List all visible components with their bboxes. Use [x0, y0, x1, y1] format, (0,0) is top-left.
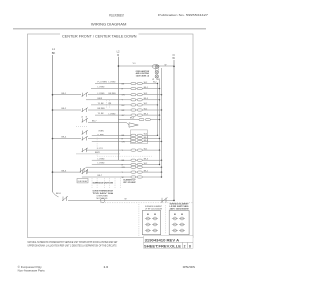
svg-text:L1 TO: L1 TO [98, 148, 104, 150]
wire pin link B4 [136, 149, 137, 151]
node N label [172, 53, 175, 60]
wire dashed between connector boxes [165, 205, 167, 234]
junction bundle B2 [159, 138, 160, 139]
svg-text:N: N [173, 53, 175, 57]
wire row C1 [92, 159, 131, 161]
connector pin pair A6 [131, 109, 142, 111]
svg-text:WIRING DIAGRAM: WIRING DIAGRAM [91, 22, 127, 26]
connector pin pair B3 [131, 140, 142, 142]
title block box [144, 236, 194, 248]
junction bundle C5 [161, 176, 162, 177]
wire L1 tap row C4 [53, 171, 82, 173]
wire row B4 [86, 149, 131, 151]
svg-text:TOD 240V 16A: TOD 240V 16A [93, 192, 114, 195]
junction bundle A2 [159, 88, 160, 89]
svg-text:BK-1: BK-1 [144, 170, 148, 172]
switch contact S8 [82, 130, 89, 134]
wire L1 tap row A3 [53, 94, 82, 96]
schematic title: CENTER FRONT / CENTER TABLE DOWN [60, 32, 139, 38]
svg-text:R: R [117, 53, 119, 57]
wire dashed vertical drop mid [96, 138, 98, 157]
oven lamp E3 bulb [155, 75, 158, 78]
connector pin pair B4 [131, 149, 142, 151]
wire dashed drops to element block [92, 178, 120, 188]
svg-text:OVEN: OVEN [98, 130, 104, 132]
wire bundle vertical 1 [157, 84, 159, 136]
svg-text:8: 8 [189, 244, 191, 248]
junction bundle C4 [161, 171, 162, 172]
junction bundle C3 [161, 167, 162, 168]
connector pin pair A7 [131, 114, 142, 116]
wire pin to bundle A7 [142, 114, 159, 116]
wire row A6 [88, 109, 131, 111]
wire pin to bundle C2 [142, 164, 159, 166]
connector pin pair C4 [131, 171, 142, 173]
wire L2 bus [117, 57, 119, 160]
svg-text:SHEET:FREV.OLLE: SHEET:FREV.OLLE [144, 244, 182, 248]
svg-text:PGLEF398ES7: PGLEF398ES7 [109, 13, 124, 17]
connector pin pair B2 [131, 137, 142, 139]
wire row C3 [86, 166, 131, 168]
schematic border box [28, 34, 194, 238]
svg-text:L1 RED: L1 RED [98, 163, 106, 165]
svg-text:W-2: W-2 [144, 82, 147, 84]
contact labels A B [82, 116, 88, 119]
wire pin link B3 [136, 141, 137, 143]
wire pin link A6 [136, 109, 137, 111]
node L1 label [52, 47, 56, 55]
svg-text:L1 RED: L1 RED [98, 93, 106, 95]
switch contact A3 [82, 92, 89, 96]
svg-text:Publication No. 5995534427: Publication No. 5995534427 [158, 13, 208, 17]
wire pin to bundle C1 [142, 159, 161, 161]
connector pin pair C2 [131, 163, 142, 165]
node L2 label [117, 50, 120, 57]
wire pin to bundle A3 [142, 94, 161, 96]
connector pin pair A4 [131, 99, 142, 101]
wire pin to bundle C3 [142, 166, 161, 168]
wire row A2 [91, 88, 131, 90]
wire pin link A2 [136, 88, 137, 90]
svg-text:BK-6: BK-6 [130, 118, 134, 120]
connector pin pair A5 [131, 104, 142, 106]
title block sheet row [144, 244, 191, 248]
wire L1 tap row B2 [53, 138, 82, 140]
wire bundle vertical 3 [161, 68, 163, 177]
broil element label [97, 130, 105, 136]
connector pin pair B1 [131, 134, 142, 136]
junction bundle C1 [161, 160, 162, 161]
wire N bus [173, 60, 175, 200]
wire row C5 [82, 176, 131, 178]
junction bundle A5 [157, 104, 158, 105]
wire L1 tap row A6 [53, 109, 82, 111]
svg-text:DLB RELAY: DLB RELAY [78, 180, 88, 183]
connector J2 header [170, 203, 190, 211]
wire pin link A7 [136, 114, 137, 116]
wire pin link C3 [136, 166, 137, 168]
svg-text:BK-3: BK-3 [144, 159, 148, 161]
svg-text:W-3: W-3 [144, 93, 147, 95]
wire pin link B1 [136, 134, 137, 136]
oven fan motor M1 [101, 198, 105, 202]
wire row B3 [92, 141, 131, 143]
lamp drop wire labels [152, 79, 160, 84]
door switch S6 [161, 197, 168, 202]
svg-text:L1 RED: L1 RED [98, 158, 106, 160]
wire pin to bundle A2 [142, 88, 159, 90]
svg-text:W-2: W-2 [144, 103, 147, 105]
oven lamp E1 bulb [155, 65, 158, 68]
svg-text:BK RED: BK RED [109, 93, 117, 95]
wire row C2 [92, 164, 131, 166]
svg-text:BK-5: BK-5 [144, 113, 148, 115]
door switch S5 [53, 192, 69, 201]
svg-text:BK: BK [52, 51, 56, 55]
junction bundle A4 [159, 99, 160, 100]
svg-text:120V 40W x2: 120V 40W x2 [136, 75, 150, 78]
svg-text:BK-2: BK-2 [144, 137, 148, 139]
connector pin pair A2 [131, 88, 142, 90]
wire dotted row [97, 155, 152, 157]
relay K2 box [77, 179, 88, 183]
oven fan motor M1 label [97, 195, 109, 200]
svg-text:BK-5: BK-5 [144, 140, 148, 142]
connector J1 terminals [145, 214, 158, 232]
connector J1 header [145, 205, 163, 211]
junction bundle A6 [161, 109, 162, 110]
svg-text:BK/R: BK/R [95, 152, 100, 154]
wire dashed stub under arrow [76, 125, 88, 127]
junction bundle B4 [159, 149, 160, 150]
junction N lamp tap [173, 66, 175, 68]
wire dashed lower run [100, 202, 193, 204]
thermostat label block [93, 189, 114, 195]
wire lamp stack link [155, 68, 158, 70]
wire pin to bundle C5 [142, 176, 161, 178]
svg-text:LF RF 1250/2500W: LF RF 1250/2500W [145, 208, 162, 210]
wire pin to bundle B2 [142, 138, 159, 140]
connector J2 terminals [172, 214, 185, 232]
wire pin to bundle C4 [142, 171, 161, 173]
svg-text:BK/R: BK/R [98, 98, 103, 100]
wire bundle vertical 2 [159, 79, 161, 165]
wire L1 bus [52, 55, 54, 192]
wire row B2 [88, 138, 131, 140]
svg-text:L1 RED: L1 RED [109, 113, 117, 115]
svg-text:BK-3: BK-3 [144, 98, 148, 100]
oven lamp E2 bulb [155, 71, 158, 74]
wire row A1 [95, 83, 131, 85]
svg-text:L1 RED: L1 RED [109, 82, 117, 84]
header rule line [13, 28, 206, 30]
junction bundle A3 [161, 94, 162, 95]
switch contact B2 [82, 136, 89, 140]
wire pin to bundle B3 [142, 141, 161, 143]
svg-text:Non-Avaessare Parts: Non-Avaessare Parts [18, 269, 46, 273]
svg-text:05/06: 05/06 [183, 265, 196, 269]
junction L1 tap A3 [52, 94, 54, 96]
svg-text:13: 13 [103, 265, 108, 269]
wire pin to bundle B4 [142, 149, 159, 151]
svg-text:P-1 OVEN: P-1 OVEN [98, 82, 108, 84]
svg-text:SURFACE UNIT SW: SURFACE UNIT SW [93, 182, 114, 185]
svg-text:W-2: W-2 [144, 163, 147, 165]
switch contact C4 [82, 170, 89, 174]
svg-text:L1 RED: L1 RED [97, 135, 105, 137]
junction L1 tap B2 [52, 138, 54, 140]
wire pin link A1 [136, 83, 137, 85]
svg-text:240V 1500/3000W: 240V 1500/3000W [170, 207, 189, 210]
wire oven lamp feed from L2 [118, 65, 174, 67]
junction bundle A1 [157, 83, 158, 84]
junction L2 lamp tap [118, 65, 120, 67]
connector shell outline [131, 130, 148, 144]
junction bundle B1 [157, 135, 158, 136]
svg-text:T-1 BK: T-1 BK [98, 113, 105, 115]
switch contact A6 [82, 108, 89, 112]
svg-text:W-1: W-1 [144, 148, 147, 150]
svg-text:NATURAL SCHEMATIC POWER ENTRY: NATURAL SCHEMATIC POWER ENTRY SERVICE UN… [28, 241, 118, 244]
wire pin link B2 [136, 138, 137, 140]
connector J2 box [169, 211, 189, 235]
svg-text:W: W [165, 64, 167, 66]
wire row A7 [95, 114, 131, 116]
wire pin to bundle A6 [142, 109, 161, 111]
svg-text:UPPER DIAGRAM: L ALLIGATION PE: UPPER DIAGRAM: L ALLIGATION PER UNIT 1 D… [28, 244, 117, 247]
junction L1 tap C4 [52, 171, 54, 173]
wire oven fan row [68, 199, 174, 201]
wire pin to bundle A4 [142, 99, 159, 101]
surface element label [124, 180, 137, 184]
connector pin pair A1 [131, 82, 142, 84]
wire row C4 [88, 171, 131, 173]
wire pin link C1 [136, 159, 137, 161]
junction bundle C2 [159, 164, 160, 165]
wire arrow row [88, 123, 129, 125]
wire pin to bundle A1 [142, 83, 157, 85]
oven lamp switch label block [136, 70, 150, 78]
svg-text:T-1 BK: T-1 BK [98, 103, 105, 105]
wire row A4 [86, 99, 131, 101]
svg-text:© Furquesar Pqty: © Furquesar Pqty [18, 265, 43, 269]
connector pin pair C3 [131, 166, 142, 168]
wire row A3 [88, 94, 131, 96]
connector pin pair C1 [131, 159, 142, 161]
connector J1 box [142, 211, 160, 235]
wire pin link A5 [136, 104, 137, 106]
svg-text:319043410 REV A: 319043410 REV A [145, 239, 180, 243]
svg-text:W-2: W-2 [144, 108, 147, 110]
wire pin link C5 [136, 176, 137, 178]
junction bundle B3 [161, 141, 162, 142]
svg-text:L1 RED: L1 RED [98, 87, 106, 89]
wire row extra [76, 153, 120, 155]
oven lamp E1 holder outline [152, 65, 159, 69]
connector pin row extra [118, 118, 160, 121]
svg-text:W: W [125, 199, 127, 201]
wire row B1 [92, 134, 131, 136]
junction bundle A7 [159, 114, 160, 115]
wire pin link A4 [136, 99, 137, 101]
junction N fan tap [173, 200, 175, 202]
wire row A5 [91, 104, 131, 106]
wire pin to bundle A5 [142, 104, 157, 106]
svg-text:RF 2100W: RF 2100W [124, 182, 136, 184]
connector pin pair C5 [131, 176, 142, 178]
svg-text:BK-1: BK-1 [144, 87, 148, 89]
relay K2 contact cluster [80, 168, 88, 174]
arrow terminal to surface units [129, 123, 138, 127]
svg-text:CENTER FRONT / CENTER TABLE DO: CENTER FRONT / CENTER TABLE DOWN [62, 35, 137, 39]
wire dashed vertical pair B [107, 100, 110, 108]
wire dashed drop to J1 [138, 204, 140, 237]
svg-text:W-4: W-4 [144, 134, 147, 136]
svg-text:BK RED: BK RED [98, 108, 106, 110]
junction L1 tap A6 [52, 109, 54, 111]
connector pin pair A3 [131, 94, 142, 96]
wire pin link A3 [136, 94, 137, 96]
wire pin to bundle B1 [142, 134, 157, 136]
svg-text:2: 2 [184, 244, 186, 248]
switch contact S9 [82, 148, 89, 152]
wire pin link C2 [136, 164, 137, 166]
wire pin link C4 [136, 171, 137, 173]
switch contact S7 [82, 118, 89, 122]
